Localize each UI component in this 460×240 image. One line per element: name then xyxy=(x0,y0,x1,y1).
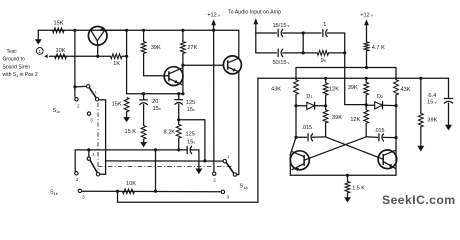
svg-text:12K: 12K xyxy=(329,87,339,93)
node Q1 collector corner xyxy=(125,29,128,32)
wire Q3 emitter down to S1A arm xyxy=(237,72,239,175)
capacitor 125/15v upper xyxy=(178,94,180,100)
node top branch join xyxy=(302,31,305,34)
power +12 arrow right xyxy=(364,19,369,25)
capacitor 20/15v xyxy=(143,94,145,100)
node chain C on wire A xyxy=(177,148,180,151)
node wire A / 10K link xyxy=(154,148,157,151)
node rail crossing right col xyxy=(395,77,397,79)
svg-text:To Audio Input on Amp: To Audio Input on Amp xyxy=(228,10,281,16)
ground (top-left, via 15K) xyxy=(37,30,39,39)
resistor 8.2K xyxy=(178,120,180,124)
svg-text:125: 125 xyxy=(186,132,195,138)
wire rail right vertical 39K xyxy=(420,78,422,113)
svg-text:8.2K: 8.2K xyxy=(164,129,176,135)
node 9K right xyxy=(343,51,346,54)
svg-text:1.5 K: 1.5 K xyxy=(352,185,365,191)
wire emitter bus xyxy=(290,174,396,176)
wire S1b contact2 stub xyxy=(74,150,76,171)
svg-text:.015: .015 xyxy=(374,128,384,134)
audio output arrow xyxy=(253,18,258,24)
node box corner tap xyxy=(116,190,119,193)
svg-text:43K: 43K xyxy=(271,86,281,92)
contact S1c-3 xyxy=(87,112,90,115)
wire A (S1b common row) xyxy=(75,149,187,151)
svg-text:1: 1 xyxy=(39,49,42,54)
node audio/D2 junction xyxy=(365,103,368,106)
wire A right corner to ground xyxy=(190,150,199,169)
linkage dash horizontal xyxy=(98,165,232,167)
ground chain B xyxy=(143,141,145,143)
wire 39K to Q2 base xyxy=(144,54,165,76)
node D2 cathode xyxy=(394,104,397,107)
svg-text:125: 125 xyxy=(186,100,195,106)
ground 1.5K xyxy=(347,193,349,197)
resistor 39K (left, vertical) xyxy=(143,30,145,41)
diode D2 xyxy=(366,104,375,106)
wire vertical left (base feed down to S1c) xyxy=(74,30,76,87)
node rail crossing left col xyxy=(295,77,297,79)
capacitor 50/15v xyxy=(277,49,279,57)
svg-text:10K: 10K xyxy=(126,181,136,187)
wire audio injection drop xyxy=(345,33,367,105)
svg-text:with S1 in Pos 2: with S1 in Pos 2 xyxy=(3,72,38,78)
capacitor 6.4/15v xyxy=(448,78,450,97)
resistor 1.5K xyxy=(347,175,349,181)
wire rail (flip-flop top) xyxy=(258,77,449,79)
switch S1c xyxy=(87,85,90,88)
wire 10K row with left arrow to test point xyxy=(50,55,98,57)
wire Q1 collector vertical down to W1 xyxy=(126,30,128,93)
capacitor .1 xyxy=(322,30,324,37)
transistor Q5 xyxy=(378,150,397,169)
svg-text:39K: 39K xyxy=(348,85,358,91)
ground chain A xyxy=(126,112,128,117)
resistor 39K far right xyxy=(418,113,423,127)
contact S1A-2 xyxy=(213,172,216,175)
wire M (collector bus) xyxy=(296,67,396,69)
wire +12 vertical down to S1A contact 2 xyxy=(213,30,215,172)
node 4.7K on wire M xyxy=(365,66,368,69)
node chain B top xyxy=(142,92,145,95)
node link on 10K row xyxy=(154,190,157,193)
ground 6.4 cap xyxy=(445,125,452,131)
transistor Q3 xyxy=(223,56,241,74)
linkage dash vertical xyxy=(97,103,99,173)
svg-text:10K: 10K xyxy=(56,48,66,54)
wire S1c contact2 stub xyxy=(74,87,76,97)
node Q2 collector / Q3 base tee xyxy=(181,64,184,67)
wire W1 (emitter bus) xyxy=(127,93,183,95)
wire link A to 10K row xyxy=(155,150,157,191)
resistor 10K bottom xyxy=(123,189,135,194)
wire .1 to corner xyxy=(327,32,344,34)
switch S1A arm xyxy=(226,162,234,173)
transistor Q1 xyxy=(88,27,107,46)
node wire B / chainC tap xyxy=(203,159,206,162)
svg-text:Test:: Test: xyxy=(7,49,18,55)
svg-text:4.7 K: 4.7 K xyxy=(372,45,385,51)
wire top rail left (15K to Q1 base/collector run) xyxy=(38,29,126,31)
node junction 15K/10K vertical xyxy=(73,29,76,32)
ground far 39K xyxy=(417,146,424,152)
svg-text:1K: 1K xyxy=(113,61,120,67)
contact S1b-3 xyxy=(78,189,81,192)
wire cross-couple right-to-Q4 xyxy=(304,137,366,160)
node D1 anode xyxy=(294,104,297,107)
svg-text:Ground to: Ground to xyxy=(3,57,25,63)
wire branch join vertical xyxy=(302,33,304,53)
resistor 39K left column xyxy=(325,106,327,110)
svg-text:20: 20 xyxy=(152,99,158,105)
wire Q3 collector to +12 rail xyxy=(238,30,240,58)
svg-text:39K: 39K xyxy=(332,115,342,121)
node .015 right / Q5 collector xyxy=(394,136,397,139)
resistor 1K (horizontal) xyxy=(98,55,111,57)
node bottom branch join xyxy=(302,51,305,54)
resistor 12K left column xyxy=(325,78,327,83)
node +12 on top rail xyxy=(212,29,215,32)
wire audio vertical left xyxy=(255,33,257,53)
svg-text:15 K: 15 K xyxy=(125,129,137,135)
node Q2 emitter / W1 junction xyxy=(181,92,184,95)
test point circled 1 xyxy=(36,48,43,55)
resistor 39K right column xyxy=(365,78,367,82)
node 39K top xyxy=(142,29,145,32)
wire cross-couple left-to-Q5 xyxy=(326,137,384,159)
svg-text:6.4: 6.4 xyxy=(428,93,436,99)
node 27K top xyxy=(181,29,184,32)
node Q1 emitter junction xyxy=(96,55,99,58)
svg-text:39K: 39K xyxy=(427,117,437,123)
node 1.5K top xyxy=(346,174,349,177)
node rail/39K-right xyxy=(365,77,368,80)
capacitor 15/15v xyxy=(277,29,279,37)
wire V1 (S1c contact1 down to S1b arm) xyxy=(105,100,107,174)
wire audio branch top xyxy=(256,32,277,34)
node chain C mid tap xyxy=(177,118,180,121)
wire 50cap to 9K xyxy=(283,52,317,54)
wire to .1 cap xyxy=(283,32,321,34)
wire Q2 collector/27K vertical xyxy=(182,54,184,94)
resistor 9K xyxy=(317,51,328,56)
contact S1A-3 xyxy=(221,190,224,193)
node chain C top xyxy=(177,92,180,95)
node rail 39K tap xyxy=(419,77,422,80)
resistor 15K (chain B) xyxy=(141,126,146,140)
resistor 15K (horizontal top-left) xyxy=(53,28,65,33)
svg-text:12K: 12K xyxy=(350,117,360,123)
diode D1 xyxy=(296,105,307,107)
svg-text:15K: 15K xyxy=(112,101,122,107)
capacitor 125/15v lower (in wire A) xyxy=(186,146,188,153)
wire 10K bottom row xyxy=(82,190,222,193)
transistor Q4 xyxy=(290,151,309,170)
resistor 4.7K xyxy=(364,42,369,51)
wire audio branch bottom xyxy=(256,52,277,54)
wire bottom box xyxy=(118,78,258,202)
node rail/12K-left xyxy=(324,77,327,80)
resistor 10K (horizontal) xyxy=(55,54,67,59)
transistor Q2 xyxy=(164,67,183,86)
node D1 cathode on 12K column xyxy=(324,104,327,107)
wire top rail right of Q1 xyxy=(105,29,239,31)
switch S1c pivot feed xyxy=(73,85,76,88)
svg-text:39K: 39K xyxy=(151,45,161,51)
resistor 43K right xyxy=(395,68,397,80)
resistor 43K left xyxy=(295,68,297,80)
svg-text:43K: 43K xyxy=(401,87,411,93)
switch S1A contact1 xyxy=(223,159,226,162)
svg-text:SeekIC.com: SeekIC.com xyxy=(382,193,456,207)
resistor 27K (vertical) xyxy=(182,30,184,41)
ground chain C xyxy=(195,169,202,175)
node .015 left / Q4 collector xyxy=(294,136,297,139)
resistor 15K (chain A vertical) xyxy=(124,98,129,112)
capacitor .015 right xyxy=(366,136,377,139)
resistor 12K right column xyxy=(365,105,367,110)
svg-text:.1: .1 xyxy=(322,22,327,28)
svg-text:.015: .015 xyxy=(302,125,312,131)
svg-text:Sound Siren: Sound Siren xyxy=(3,64,31,70)
svg-text:27K: 27K xyxy=(187,45,197,51)
switch S1b xyxy=(88,150,90,157)
wire B (to S1A contact1) xyxy=(106,160,224,162)
wire tap to wire B xyxy=(179,120,205,161)
node wire A / S1b pivot xyxy=(87,148,90,151)
svg-text:15K: 15K xyxy=(54,20,64,26)
power +12 arrow left xyxy=(211,19,216,25)
capacitor .015 left xyxy=(296,136,307,138)
